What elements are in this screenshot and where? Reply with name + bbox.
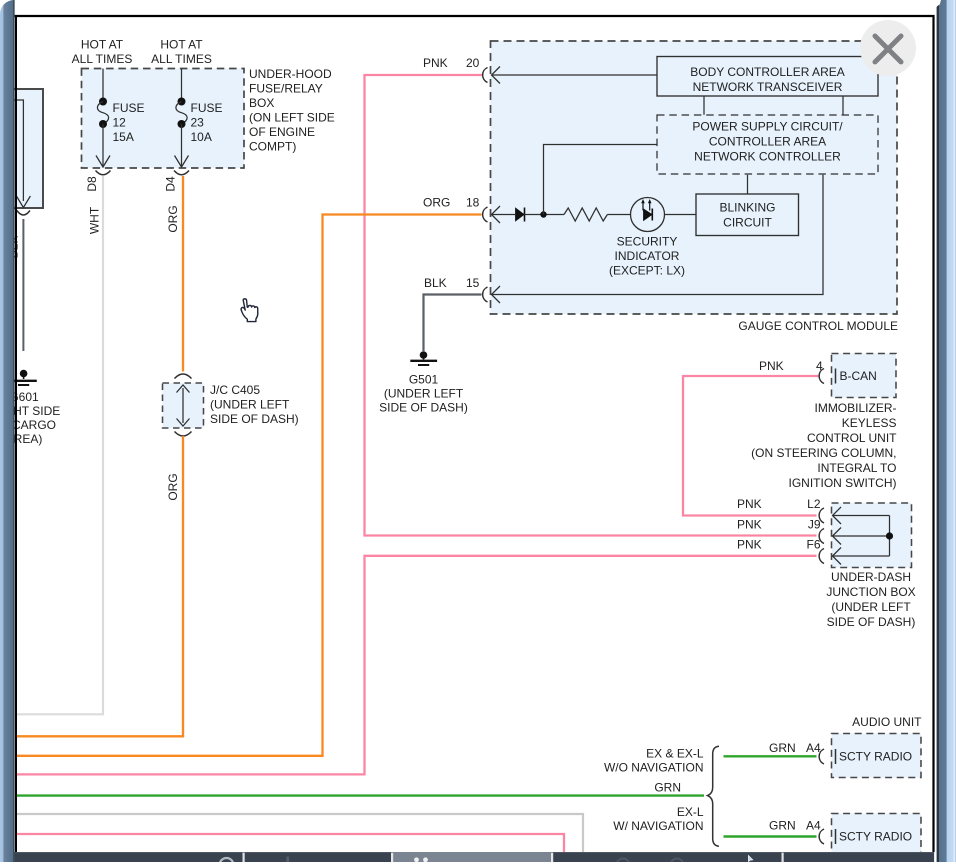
svg-text:J/C C405: J/C C405 [210, 383, 260, 397]
svg-text:SIDE OF DASH): SIDE OF DASH) [210, 412, 299, 426]
under-dash caption [826, 570, 915, 629]
svg-text:COMPT): COMPT) [249, 140, 296, 154]
label security indicator [609, 235, 685, 278]
pin 15 arc [483, 287, 488, 302]
fuse 12 15A [96, 69, 110, 168]
svg-text:G501: G501 [409, 373, 439, 387]
pin 20 arc [483, 68, 488, 83]
svg-text:ALL TIMES: ALL TIMES [72, 52, 133, 66]
svg-text:(UNDER LEFT: (UNDER LEFT [831, 600, 911, 614]
close button circle [860, 20, 916, 76]
svg-text:SIDE OF DASH): SIDE OF DASH) [827, 615, 916, 629]
modal frame left strip [0, 0, 15, 862]
radio 2 pin A4 arc [819, 829, 824, 844]
svg-text:(UNDER LEFT: (UNDER LEFT [210, 398, 290, 412]
mouse hand cursor [241, 299, 258, 322]
svg-text:23: 23 [191, 116, 205, 130]
svg-text:F6: F6 [806, 538, 820, 552]
svg-text:ORG: ORG [166, 473, 180, 500]
svg-text:BLINKING: BLINKING [719, 201, 775, 215]
label PNK 4 [759, 359, 823, 373]
wire WHT lower from left [16, 814, 583, 853]
svg-text:18: 18 [466, 196, 480, 210]
modal frame right strip [937, 0, 956, 862]
junction node dot [540, 211, 546, 217]
immobilizer caption [751, 401, 897, 490]
svg-text:EX & EX-L: EX & EX-L [646, 747, 704, 761]
fuse 23 labels [191, 101, 223, 144]
diagram border right [932, 15, 934, 852]
svg-text:BODY CONTROLLER AREA: BODY CONTROLLER AREA [690, 65, 845, 79]
svg-text:PNK: PNK [423, 56, 448, 70]
connector arc under fuse 12 [96, 171, 111, 175]
connector arc under left box [17, 211, 30, 216]
svg-text:10A: 10A [191, 130, 212, 144]
under-hood fuse/relay box [82, 69, 245, 169]
label HOT AT ALL TIMES (fuse 23) [151, 38, 212, 67]
connector arc above J/C C405 [175, 374, 192, 379]
pin J9 arc [819, 529, 824, 544]
wire blinking to controller [747, 175, 749, 194]
svg-text:A4: A4 [806, 819, 821, 833]
wire ORG from fuse 23 (upper) [182, 176, 184, 372]
svg-text:NETWORK TRANSCEIVER: NETWORK TRANSCEIVER [693, 80, 843, 94]
wire PNK F6 from left [16, 556, 817, 775]
modal rounded corner mask top-right [934, 0, 941, 9]
label ORG 18 [423, 196, 480, 210]
svg-text:GAUGE CONTROL MODULE: GAUGE CONTROL MODULE [738, 319, 898, 333]
svg-text:W/ NAVIGATION: W/ NAVIGATION [613, 819, 703, 833]
svg-text:BOX: BOX [249, 96, 274, 110]
left partial fuse box component [2, 89, 43, 208]
wire BLK to G601 [22, 219, 24, 351]
svg-text:12: 12 [113, 116, 127, 130]
svg-text:J9: J9 [808, 518, 821, 532]
svg-text:WHT: WHT [88, 206, 102, 234]
svg-text:HOT AT: HOT AT [81, 38, 124, 52]
wire pin18 to diode [492, 214, 516, 216]
label PNK J9 [737, 518, 821, 532]
wire GRN to radio 1 [724, 755, 817, 757]
svg-text:NETWORK CONTROLLER: NETWORK CONTROLLER [694, 150, 841, 164]
label EX-L W/ NAVIGATION [613, 805, 704, 833]
wire diode to node [525, 214, 565, 216]
wire transceiver-controller left [703, 96, 705, 115]
svg-text:GRN: GRN [769, 819, 796, 833]
B-CAN pin 4 arc [819, 369, 824, 384]
svg-text:HOT AT: HOT AT [160, 38, 203, 52]
wire GRN main from left [16, 794, 704, 796]
svg-text:W/O NAVIGATION: W/O NAVIGATION [604, 761, 704, 775]
wire LED to blinking circuit [665, 214, 697, 216]
junction connector J/C C405 [163, 383, 204, 428]
svg-text:BLK: BLK [424, 276, 447, 290]
junction bus vertical [889, 516, 891, 557]
wire PNK B-CAN to L2 [683, 376, 819, 516]
svg-text:SCTY RADIO: SCTY RADIO [839, 830, 912, 844]
pin F6 arc [819, 549, 824, 564]
label GRN A4 (bottom) [769, 819, 821, 833]
wire ORG from J/C C405 (lower) [16, 436, 183, 736]
pin L2 arrow wire [833, 507, 890, 524]
svg-text:B-CAN: B-CAN [840, 369, 877, 383]
SCTY RADIO box 1 [832, 734, 922, 778]
connector arc under fuse 23 [174, 171, 189, 175]
svg-text:SECURITY: SECURITY [617, 235, 678, 249]
wire GRN to radio 2 [724, 835, 817, 837]
svg-text:(EXCEPT: LX): (EXCEPT: LX) [609, 264, 685, 278]
pin 20 arrow [492, 67, 501, 84]
diode D1 [516, 208, 525, 222]
svg-text:SCTY RADIO: SCTY RADIO [839, 750, 912, 764]
close button X icon [875, 36, 901, 62]
svg-text:KEYLESS: KEYLESS [842, 416, 897, 430]
fuse 12 labels [113, 101, 145, 144]
svg-text:D8: D8 [85, 176, 99, 192]
label PNK 20 [423, 56, 480, 70]
svg-text:(UNDER LEFT: (UNDER LEFT [384, 387, 464, 401]
wire resistor to LED [607, 214, 630, 216]
svg-text:AUDIO UNIT: AUDIO UNIT [852, 715, 922, 729]
svg-text:UNDER-DASH: UNDER-DASH [831, 570, 911, 584]
svg-text:GRN: GRN [769, 741, 796, 755]
fuse 23 10A [175, 69, 189, 168]
wire PNK lower from left [16, 834, 564, 853]
label HOT AT ALL TIMES (fuse 12) [72, 38, 133, 67]
svg-text:PNK: PNK [737, 497, 762, 511]
svg-text:A4: A4 [806, 741, 821, 755]
under-hood box caption [249, 67, 335, 154]
wire ORG pin18 [16, 215, 482, 756]
gauge control module box [491, 41, 898, 314]
pin J9 arrow wire [833, 528, 890, 545]
svg-text:L2: L2 [807, 497, 821, 511]
node G501 labels [379, 373, 468, 415]
pin 15 arrow [492, 286, 501, 303]
svg-text:EX-L: EX-L [677, 805, 704, 819]
bottom toolbar [15, 852, 935, 867]
label BLK 15 [424, 276, 480, 290]
svg-text:(ON STEERING COLUMN,: (ON STEERING COLUMN, [751, 446, 896, 460]
svg-text:UNDER-HOOD: UNDER-HOOD [249, 67, 332, 81]
modal rounded corner mask top-left [0, 0, 14, 14]
svg-text:CONTROL UNIT: CONTROL UNIT [807, 431, 897, 445]
svg-text:CIRCUIT: CIRCUIT [723, 216, 772, 230]
svg-text:INTEGRAL TO: INTEGRAL TO [817, 461, 896, 475]
wire transceiver-controller right [842, 96, 844, 115]
SCTY RADIO box 2 [832, 814, 922, 858]
label EX & EX-L W/O NAVIGATION [604, 747, 704, 775]
svg-text:15A: 15A [113, 130, 134, 144]
diagram border left [15, 15, 17, 852]
power supply circuit / CAN controller U2 [657, 115, 878, 174]
under-dash junction box [832, 503, 912, 568]
B-CAN connector box (immobilizer) [832, 354, 897, 398]
node G601 labels [0, 390, 60, 446]
wire controller to pin15 [492, 175, 824, 295]
connector arc below J/C C405 [175, 432, 192, 437]
svg-text:PNK: PNK [737, 518, 762, 532]
svg-text:15: 15 [466, 276, 480, 290]
svg-text:OF ENGINE: OF ENGINE [249, 125, 315, 139]
brace split [708, 746, 720, 846]
body controller area network transceiver U1 [657, 57, 878, 97]
svg-text:CONTROLLER AREA: CONTROLLER AREA [709, 135, 826, 149]
wire pin20 to transceiver [492, 74, 658, 76]
svg-text:JUNCTION BOX: JUNCTION BOX [826, 585, 915, 599]
svg-text:(ON LEFT SIDE: (ON LEFT SIDE [249, 110, 335, 124]
ground G601 [10, 370, 36, 385]
svg-text:GRN: GRN [654, 781, 681, 795]
svg-text:D4: D4 [164, 176, 178, 192]
pin F6 arrow wire [833, 548, 890, 565]
ground G501 [410, 351, 437, 365]
LED security indicator [631, 198, 665, 232]
svg-text:INDICATOR: INDICATOR [615, 249, 680, 263]
diagram border top [15, 15, 935, 17]
wire BLK pin15 to G501 [424, 295, 482, 352]
svg-text:IMMOBILIZER-: IMMOBILIZER- [814, 401, 896, 415]
svg-text:FUSE: FUSE [191, 101, 223, 115]
svg-text:ORG: ORG [423, 196, 450, 210]
svg-text:ALL TIMES: ALL TIMES [151, 52, 212, 66]
wire WHT from fuse 12 [16, 176, 103, 714]
blinking circuit box U3 [696, 194, 799, 236]
pin L2 arc [819, 508, 824, 523]
junction bus node dot [886, 532, 893, 539]
label GRN A4 (top) [769, 741, 821, 755]
svg-text:IGNITION SWITCH): IGNITION SWITCH) [789, 476, 897, 490]
radio 1 pin A4 arc [819, 749, 824, 764]
pin 18 arc [483, 207, 488, 222]
label PNK L2 [737, 497, 821, 511]
J/C C405 caption [210, 383, 299, 426]
svg-text:ORG: ORG [166, 205, 180, 232]
svg-text:20: 20 [466, 56, 480, 70]
pin 18 arrow [492, 206, 501, 223]
svg-text:FUSE: FUSE [113, 101, 145, 115]
label PNK F6 [737, 538, 821, 552]
wire node to controller [544, 145, 658, 215]
resistor R1 [564, 208, 607, 221]
svg-text:POWER SUPPLY CIRCUIT/: POWER SUPPLY CIRCUIT/ [692, 120, 843, 134]
svg-text:SIDE OF DASH): SIDE OF DASH) [379, 401, 468, 415]
svg-text:PNK: PNK [759, 359, 784, 373]
svg-text:PNK: PNK [737, 538, 762, 552]
svg-text:4: 4 [816, 359, 823, 373]
wire PNK pin20 to J9 [365, 75, 817, 536]
svg-text:FUSE/RELAY: FUSE/RELAY [249, 81, 323, 95]
